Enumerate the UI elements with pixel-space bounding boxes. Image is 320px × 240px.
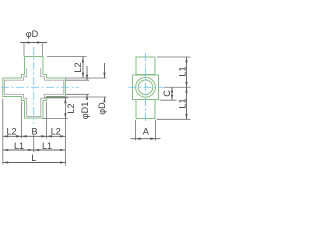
dimension phiD (top, tube diameter) — [20, 29, 47, 43]
svg-text:L1: L1 — [178, 66, 188, 76]
svg-text:L1: L1 — [14, 141, 24, 151]
svg-text:L2: L2 — [66, 103, 76, 113]
side view: body square — [133, 75, 159, 100]
front view: cross fitting body outline — [3, 57, 66, 119]
svg-text:φD1: φD1 — [80, 102, 90, 120]
dimension phiD1 (right, bore diameter) — [65, 66, 90, 119]
dimension L1 / L1 (side view right) — [178, 57, 188, 119]
dimension L2 (bottom right of front view, socket depth) — [43, 97, 76, 166]
svg-text:L2: L2 — [51, 127, 61, 137]
side view: port outer circle — [136, 77, 156, 97]
svg-text:L1: L1 — [42, 141, 52, 151]
svg-text:φD: φD — [97, 102, 107, 115]
side view: vertical centerline — [145, 53, 147, 123]
dimension row L2 / B / L2 (bottom) — [3, 127, 66, 138]
svg-text:L: L — [31, 153, 36, 163]
dimension L (overall length) — [3, 153, 66, 164]
svg-text:L1: L1 — [178, 98, 188, 108]
svg-text:L2: L2 — [6, 127, 16, 137]
front view: inserted tube stub (top port) — [24, 43, 43, 57]
side view: bottom port square — [136, 100, 155, 119]
svg-text:L2: L2 — [73, 62, 83, 72]
front view: horizontal centerline — [1, 86, 79, 88]
svg-text:A: A — [143, 126, 150, 136]
svg-text:B: B — [31, 127, 37, 137]
dimension L2 (top right, socket depth) — [47, 57, 87, 79]
extension lines bottom (front view) — [3, 99, 47, 165]
dimension A (bottom of side view) — [131, 120, 161, 141]
svg-text:φD: φD — [26, 29, 39, 39]
dimension C (center to bottom face) — [162, 87, 173, 100]
svg-text:C: C — [162, 90, 172, 97]
side view extension lines — [157, 57, 191, 119]
dimension phiD (right, port outer diameter) — [47, 63, 107, 115]
side view: bore circle — [138, 80, 153, 95]
front view: inner socket contour — [4, 68, 63, 116]
front view: vertical centerline — [33, 47, 35, 124]
dimension row L1 / L1 — [3, 141, 66, 151]
side view: horizontal centerline — [129, 86, 164, 88]
side view: top port square — [136, 57, 155, 75]
